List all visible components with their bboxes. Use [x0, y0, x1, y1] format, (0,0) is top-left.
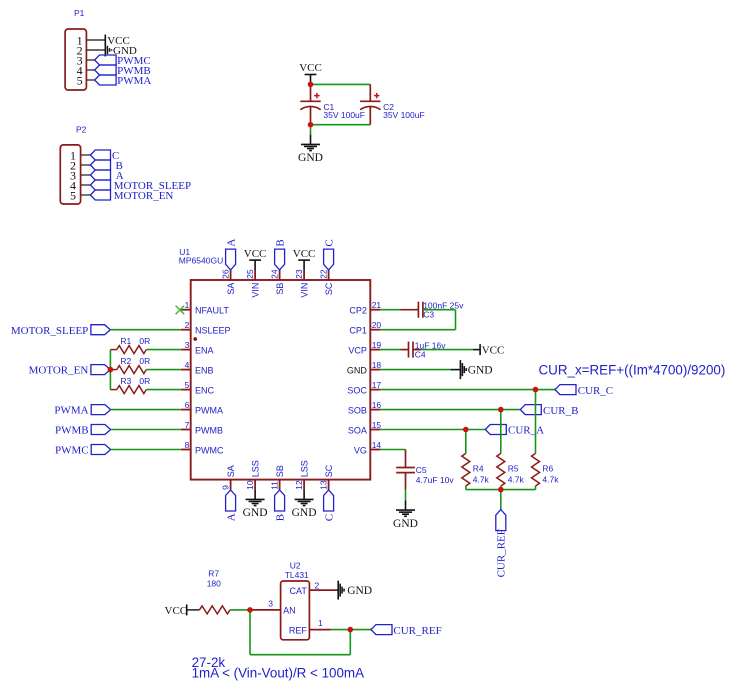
svg-text:0R: 0R — [139, 356, 150, 366]
svg-text:4.7k: 4.7k — [542, 475, 559, 485]
svg-text:PWMB: PWMB — [55, 425, 89, 437]
svg-text:2: 2 — [315, 580, 320, 590]
svg-text:PWMC: PWMC — [195, 445, 224, 455]
svg-text:GND: GND — [347, 585, 372, 597]
svg-text:R6: R6 — [542, 464, 553, 474]
svg-text:26: 26 — [220, 269, 230, 279]
svg-text:13: 13 — [318, 480, 328, 490]
svg-text:A: A — [225, 239, 237, 247]
svg-text:21: 21 — [372, 300, 382, 310]
svg-text:24: 24 — [269, 269, 279, 279]
svg-text:GND: GND — [393, 518, 418, 530]
svg-text:CP1: CP1 — [349, 326, 367, 336]
svg-text:CUR_C: CUR_C — [578, 385, 613, 397]
svg-text:CAT: CAT — [290, 586, 308, 596]
svg-text:VCC: VCC — [293, 248, 316, 260]
svg-text:MP6540GU: MP6540GU — [179, 256, 223, 266]
svg-text:23: 23 — [294, 269, 304, 279]
svg-text:C: C — [323, 514, 335, 521]
svg-text:VCC: VCC — [482, 345, 505, 357]
svg-text:GND: GND — [298, 152, 323, 164]
svg-text:1: 1 — [185, 300, 190, 310]
svg-text:5: 5 — [70, 188, 76, 202]
svg-text:SOC: SOC — [347, 386, 367, 396]
svg-text:35V 100uF: 35V 100uF — [323, 110, 365, 120]
svg-text:GND: GND — [468, 365, 493, 377]
svg-text:TL431: TL431 — [285, 570, 309, 580]
svg-text:AN: AN — [283, 606, 296, 616]
svg-text:3: 3 — [185, 340, 190, 350]
svg-text:19: 19 — [372, 340, 382, 350]
svg-text:GND: GND — [292, 507, 317, 519]
svg-text:B: B — [274, 514, 286, 521]
svg-text:VCC: VCC — [299, 62, 322, 74]
svg-text:1: 1 — [318, 618, 323, 628]
svg-text:16: 16 — [372, 400, 382, 410]
svg-text:GND: GND — [243, 507, 268, 519]
svg-text:180: 180 — [207, 578, 221, 588]
svg-text:A: A — [225, 513, 237, 521]
svg-text:25: 25 — [245, 269, 255, 279]
svg-text:P1: P1 — [74, 8, 85, 18]
svg-text:LSS: LSS — [251, 460, 261, 477]
svg-text:CUR_REF: CUR_REF — [496, 529, 508, 577]
svg-text:SC: SC — [324, 464, 334, 477]
svg-text:10: 10 — [245, 480, 255, 490]
svg-text:SB: SB — [275, 465, 285, 477]
svg-text:VCP: VCP — [348, 346, 367, 356]
svg-text:C4: C4 — [415, 350, 426, 360]
svg-text:9: 9 — [220, 485, 230, 490]
svg-text:R7: R7 — [208, 568, 219, 578]
svg-text:20: 20 — [372, 320, 382, 330]
svg-text:CUR_B: CUR_B — [543, 405, 578, 417]
svg-text:0R: 0R — [139, 376, 150, 386]
svg-text:6: 6 — [185, 400, 190, 410]
svg-text:C: C — [323, 239, 335, 246]
svg-text:SC: SC — [324, 282, 334, 295]
svg-text:1mA < (Vin-Vout)/R < 100mA: 1mA < (Vin-Vout)/R < 100mA — [192, 666, 364, 681]
svg-text:12: 12 — [294, 480, 304, 490]
svg-text:P2: P2 — [76, 125, 87, 135]
svg-text:CUR_A: CUR_A — [508, 425, 544, 437]
svg-text:CP2: CP2 — [349, 306, 367, 316]
svg-text:VCC: VCC — [244, 248, 267, 260]
svg-text:R2: R2 — [120, 356, 131, 366]
svg-text:4.7k: 4.7k — [473, 475, 490, 485]
svg-text:B: B — [274, 239, 286, 246]
svg-text:22: 22 — [318, 269, 328, 279]
svg-text:VIN: VIN — [251, 283, 261, 298]
svg-text:U2: U2 — [290, 560, 301, 570]
svg-text:MOTOR_SLEEP: MOTOR_SLEEP — [11, 325, 88, 337]
svg-text:MOTOR_EN: MOTOR_EN — [114, 190, 174, 202]
svg-text:C3: C3 — [423, 310, 434, 320]
svg-text:ENB: ENB — [195, 366, 214, 376]
svg-text:14: 14 — [372, 440, 382, 450]
svg-text:VIN: VIN — [300, 283, 310, 298]
svg-text:2: 2 — [185, 320, 190, 330]
svg-text:PWMB: PWMB — [195, 425, 223, 435]
svg-text:R3: R3 — [120, 376, 131, 386]
svg-text:SA: SA — [226, 283, 236, 295]
svg-text:35V 100uF: 35V 100uF — [383, 110, 425, 120]
svg-text:SOA: SOA — [348, 425, 367, 435]
svg-text:0R: 0R — [139, 336, 150, 346]
svg-text:NSLEEP: NSLEEP — [195, 326, 231, 336]
svg-text:4: 4 — [185, 360, 190, 370]
svg-text:CUR_REF: CUR_REF — [393, 625, 441, 637]
svg-text:5: 5 — [77, 73, 83, 87]
svg-text:ENA: ENA — [195, 346, 214, 356]
svg-text:R4: R4 — [473, 464, 484, 474]
svg-text:CUR_x=REF+((Im*4700)/9200): CUR_x=REF+((Im*4700)/9200) — [539, 362, 726, 377]
svg-text:VCC: VCC — [165, 605, 188, 617]
svg-text:15: 15 — [372, 420, 382, 430]
svg-text:3: 3 — [268, 599, 273, 609]
svg-text:ENC: ENC — [195, 386, 215, 396]
svg-text:REF: REF — [289, 626, 308, 636]
svg-text:R5: R5 — [508, 464, 519, 474]
svg-text:8: 8 — [185, 440, 190, 450]
svg-text:SB: SB — [275, 283, 285, 295]
svg-text:LSS: LSS — [300, 460, 310, 477]
svg-text:7: 7 — [185, 420, 190, 430]
svg-text:5: 5 — [185, 380, 190, 390]
svg-text:18: 18 — [372, 360, 382, 370]
svg-text:NFAULT: NFAULT — [195, 306, 229, 316]
svg-text:11: 11 — [269, 481, 279, 490]
svg-text:MOTOR_EN: MOTOR_EN — [29, 365, 89, 377]
svg-text:17: 17 — [372, 380, 382, 390]
svg-text:C5: C5 — [416, 465, 427, 475]
svg-text:VG: VG — [354, 445, 367, 455]
svg-text:PWMC: PWMC — [55, 445, 89, 457]
svg-text:PWMA: PWMA — [195, 406, 223, 416]
svg-text:GND: GND — [347, 366, 368, 376]
svg-text:SA: SA — [226, 465, 236, 477]
svg-text:4.7k: 4.7k — [508, 475, 525, 485]
svg-text:4.7uF 10v: 4.7uF 10v — [416, 475, 455, 485]
svg-text:SOB: SOB — [348, 406, 367, 416]
svg-text:R1: R1 — [120, 336, 131, 346]
svg-text:PWMA: PWMA — [54, 405, 88, 417]
svg-text:PWMA: PWMA — [117, 75, 151, 87]
